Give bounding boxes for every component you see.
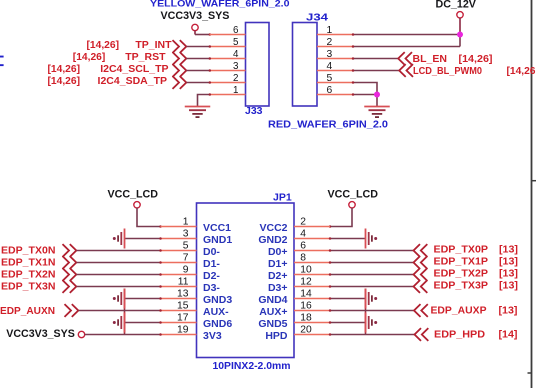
junction JP1 pin 14 xyxy=(329,297,332,300)
svg-text:EDP_HPD: EDP_HPD xyxy=(434,328,485,340)
junction J34 pin 5 wire xyxy=(352,81,355,84)
svg-text:[14,26]: [14,26] xyxy=(459,54,493,65)
junction J34 pin 4 wire xyxy=(352,69,355,72)
ground (GND4) xyxy=(365,289,367,309)
svg-text:JP1: JP1 xyxy=(273,192,292,204)
ground (J33) xyxy=(185,106,211,108)
svg-text:10: 10 xyxy=(300,264,312,275)
JP1 pin 17 xyxy=(161,322,197,324)
svg-text:[14,26]: [14,26] xyxy=(48,76,81,87)
svg-text:2: 2 xyxy=(233,73,238,84)
svg-text:D0-: D0- xyxy=(203,246,220,258)
wire VCC_LCD to JP1 pin 1 xyxy=(137,208,161,227)
svg-text:VCC_LCD: VCC_LCD xyxy=(328,188,379,200)
junction TP_INT at pin xyxy=(209,45,212,48)
J33 pin 1 xyxy=(210,94,246,96)
wire EDP_TX2N xyxy=(77,274,161,276)
junction EDP_TX3N at pin xyxy=(159,285,162,288)
svg-text:TP_INT: TP_INT xyxy=(135,39,172,51)
off-page connector EDP_AUXP xyxy=(414,304,428,317)
junction I2C4_SDA_TP at pin xyxy=(209,81,212,84)
connector J33 xyxy=(246,23,270,107)
svg-text:GND3: GND3 xyxy=(203,294,232,306)
off-page connector TP_RST xyxy=(173,52,187,65)
J34 pin 4 xyxy=(317,70,353,72)
svg-text:7: 7 xyxy=(183,252,189,263)
J34 pin 5 xyxy=(317,82,353,84)
svg-text:GND4: GND4 xyxy=(258,294,287,306)
JP1 pin 1 xyxy=(161,226,197,228)
svg-text:13: 13 xyxy=(177,288,189,299)
connector J34 xyxy=(293,23,318,107)
JP1 pin 9 xyxy=(161,274,197,276)
ground (GND6) xyxy=(124,313,126,333)
JP1 pin 3 xyxy=(161,238,197,240)
ground (GND3) xyxy=(124,289,126,309)
junction JP1 pin 1 xyxy=(159,225,162,228)
svg-text:[14,26: [14,26 xyxy=(507,66,536,77)
wire BL_EN xyxy=(353,58,399,60)
wire EDP_TX0N xyxy=(77,250,161,252)
junction EDP_TX2P at pin xyxy=(329,273,332,276)
svg-text:BL_EN: BL_EN xyxy=(413,53,447,65)
svg-text:16: 16 xyxy=(300,300,312,311)
wire ground bus right (GND4/GND5) xyxy=(365,289,367,335)
off-page connector EDP_TX1N xyxy=(63,256,77,269)
wire J34 pin 5 to ground bus xyxy=(353,83,377,95)
svg-text:[13]: [13] xyxy=(499,305,518,316)
svg-text:3: 3 xyxy=(327,49,333,60)
wire VCC3V3_SYS stem xyxy=(194,30,196,34)
svg-text:2: 2 xyxy=(327,37,333,48)
JP1 pin 13 xyxy=(161,298,197,300)
svg-text:I2C4_SCL_TP: I2C4_SCL_TP xyxy=(100,63,168,75)
svg-text:6: 6 xyxy=(327,85,333,96)
ground (GND5) xyxy=(365,313,367,333)
svg-text:14: 14 xyxy=(300,288,312,299)
svg-text:D0+: D0+ xyxy=(268,246,288,258)
wire EDP_TX1N xyxy=(77,262,161,264)
svg-text:HPD: HPD xyxy=(265,330,288,342)
off-page connector EDP_TX2N xyxy=(63,268,77,281)
svg-text:VCC3V3_SYS: VCC3V3_SYS xyxy=(161,10,230,22)
wire VCC3V3_SYS to J33 pin 6 xyxy=(195,34,210,36)
border tick xyxy=(528,372,532,374)
svg-text:12: 12 xyxy=(300,276,312,287)
wire J33 pin 1 to ground xyxy=(198,95,210,107)
wire EDP_AUXP xyxy=(330,310,414,312)
junction JP1 pin 16 xyxy=(329,309,332,312)
junction J34 pin 1 wire xyxy=(352,33,355,36)
JP1 pin 7 xyxy=(161,262,197,264)
svg-text:9: 9 xyxy=(183,264,189,275)
svg-text:3: 3 xyxy=(183,228,189,239)
svg-text:[13]: [13] xyxy=(499,269,518,280)
svg-text:VCC1: VCC1 xyxy=(203,222,231,234)
off-page connector EDP_AUXN xyxy=(65,304,79,317)
wire EDP_TX0P xyxy=(330,250,414,252)
junction JP1 pin 4 xyxy=(329,237,332,240)
wire VCC3V3_SYS to JP1 pin 19 xyxy=(85,334,161,336)
wire VCC_LCD to JP1 pin 2 xyxy=(330,208,352,227)
ground (J34) xyxy=(364,106,390,108)
svg-text:VCC2: VCC2 xyxy=(259,222,287,234)
J33 pin 3 xyxy=(210,70,246,72)
svg-text:20: 20 xyxy=(300,324,312,335)
svg-text:GND2: GND2 xyxy=(258,234,287,246)
off-page connector EDP_TX3P xyxy=(414,280,428,293)
JP1 pin 20 xyxy=(294,334,330,336)
junction EDP_TX2N at pin xyxy=(159,273,162,276)
J33 pin 2 xyxy=(210,82,246,84)
svg-text:5: 5 xyxy=(183,240,189,251)
junction JP1 pin 19 xyxy=(159,333,162,336)
junction J33 pin 6 xyxy=(209,33,212,36)
svg-text:D1-: D1- xyxy=(203,258,220,270)
svg-text:GND6: GND6 xyxy=(203,318,232,330)
wire EDP_TX1P xyxy=(330,262,414,264)
JP1 pin 19 xyxy=(161,334,197,336)
wire TP_RST xyxy=(187,58,210,60)
connector JP1 xyxy=(197,203,295,358)
J33 pin 4 xyxy=(210,58,246,60)
svg-text:DC_12V: DC_12V xyxy=(436,0,477,11)
svg-text:AUX-: AUX- xyxy=(203,306,229,318)
junction EDP_TX0N at pin xyxy=(159,249,162,252)
wire DC_12V down to pin 2 row xyxy=(459,35,461,47)
schematic page border xyxy=(531,0,533,388)
svg-text:5: 5 xyxy=(233,37,239,48)
svg-text:[13]: [13] xyxy=(499,281,518,292)
svg-text:19: 19 xyxy=(177,324,189,335)
svg-text:GND1: GND1 xyxy=(203,234,232,246)
svg-text:[14]: [14] xyxy=(499,329,518,340)
svg-text:EDP_TX0P: EDP_TX0P xyxy=(434,244,489,256)
svg-text:J33: J33 xyxy=(245,105,263,117)
off-page connector EDP_TX1P xyxy=(414,256,428,269)
wire GND1 xyxy=(125,238,161,240)
off-page connector EDP_TX0N xyxy=(63,244,77,257)
JP1 pin 10 xyxy=(294,274,330,276)
junction EDP_TX1N at pin xyxy=(159,261,162,264)
wire J34 pin 6 to ground xyxy=(353,94,377,96)
svg-text:I2C4_SDA_TP: I2C4_SDA_TP xyxy=(98,75,167,87)
svg-text:6: 6 xyxy=(300,240,306,251)
svg-text:[14,26]: [14,26] xyxy=(48,64,81,75)
wire EDP_TX2P xyxy=(330,274,414,276)
wire LCD_BL_PWM0 xyxy=(353,70,400,72)
svg-text:5: 5 xyxy=(327,73,333,84)
svg-text:11: 11 xyxy=(178,276,189,287)
wire I2C4_SCL_TP xyxy=(187,70,210,72)
svg-text:AUX+: AUX+ xyxy=(259,306,287,318)
svg-text:[13]: [13] xyxy=(499,245,518,256)
junction EDP_TX1P at pin xyxy=(329,261,332,264)
wire GND6 xyxy=(125,322,161,324)
wire GND3 xyxy=(125,298,161,300)
off-page connector I2C4_SDA_TP xyxy=(173,76,187,89)
junction JP1 pin 15 xyxy=(159,309,162,312)
svg-text:TP_RST: TP_RST xyxy=(125,51,166,63)
JP1 pin 14 xyxy=(294,298,330,300)
svg-text:EDP_AUXP: EDP_AUXP xyxy=(431,304,487,316)
JP1 pin 11 xyxy=(161,286,197,288)
power symbol VCC3V3_SYS circle xyxy=(192,24,198,30)
J34 pin 3 xyxy=(317,58,353,60)
svg-text:EDP_TX2P: EDP_TX2P xyxy=(434,268,489,280)
svg-text:RED_WAFER_6PIN_2.0: RED_WAFER_6PIN_2.0 xyxy=(268,120,388,131)
JP1 pin 15 xyxy=(161,310,197,312)
svg-text:3: 3 xyxy=(233,61,239,72)
svg-text:[13]: [13] xyxy=(499,257,518,268)
svg-text:D3+: D3+ xyxy=(268,282,288,294)
JP1 pin 5 xyxy=(161,250,197,252)
border tick upper xyxy=(532,180,536,182)
svg-text:D1+: D1+ xyxy=(268,258,288,270)
off-page connector EDP_HPD xyxy=(415,328,429,341)
svg-text:YELLOW_WAFER_6PIN_2.0: YELLOW_WAFER_6PIN_2.0 xyxy=(150,0,290,10)
off-page connector I2C4_SCL_TP xyxy=(173,64,187,77)
J34 pin 6 xyxy=(317,94,353,96)
svg-text:EDP_TX3P: EDP_TX3P xyxy=(434,280,489,292)
power symbol VCC3V3_SYS circle (bottom) xyxy=(78,331,84,337)
svg-text:VCC_LCD: VCC_LCD xyxy=(108,188,159,200)
svg-text:VCC3V3_SYS: VCC3V3_SYS xyxy=(6,328,75,340)
junction JP1 pin 20 xyxy=(329,333,332,336)
svg-text:6: 6 xyxy=(233,25,239,36)
wire DC_12V to J34 pin 1 xyxy=(353,34,460,36)
cut-off blue text at left edge xyxy=(0,56,4,58)
wire DC_12V stem xyxy=(459,18,461,35)
junction TP_RST at pin xyxy=(209,57,212,60)
junction JP1 pin 13 xyxy=(159,297,162,300)
J33 pin 5 xyxy=(210,46,246,48)
JP1 pin 18 xyxy=(294,322,330,324)
off-page connector EDP_TX3N xyxy=(63,280,77,293)
junction JP1 pin 17 xyxy=(159,321,162,324)
svg-text:EDP_TX1N: EDP_TX1N xyxy=(1,257,56,269)
svg-text:4: 4 xyxy=(327,61,333,72)
svg-text:10PINX2-2.0mm: 10PINX2-2.0mm xyxy=(213,361,291,372)
off-page connector LCD_BL_PWM0 xyxy=(399,64,413,77)
wire GND2 xyxy=(330,238,366,240)
off-page connector EDP_TX0P xyxy=(414,244,428,257)
svg-text:EDP_TX0N: EDP_TX0N xyxy=(1,245,56,257)
junction J34 ground (magenta) xyxy=(374,92,380,98)
off-page connector TP_INT xyxy=(173,40,187,53)
svg-text:4: 4 xyxy=(233,49,239,60)
svg-text:1: 1 xyxy=(327,25,333,36)
svg-text:EDP_TX3N: EDP_TX3N xyxy=(1,281,56,293)
wire EDP_HPD xyxy=(330,334,415,336)
power symbol DC_12V circle xyxy=(457,12,463,18)
JP1 pin 6 xyxy=(294,250,330,252)
svg-text:1: 1 xyxy=(183,216,189,227)
svg-text:15: 15 xyxy=(177,300,189,311)
wire GND4 xyxy=(330,298,366,300)
svg-text:D3-: D3- xyxy=(203,282,220,294)
off-page connector EDP_TX2P xyxy=(414,268,428,281)
svg-text:EDP_TX2N: EDP_TX2N xyxy=(1,269,56,281)
JP1 pin 4 xyxy=(294,238,330,240)
junction JP1 pin 18 xyxy=(329,321,332,324)
svg-text:18: 18 xyxy=(300,312,312,323)
junction J34 pin 3 wire xyxy=(352,57,355,60)
svg-text:17: 17 xyxy=(177,312,189,323)
junction EDP_TX3P at pin xyxy=(329,285,332,288)
JP1 pin 2 xyxy=(294,226,330,228)
wire EDP_TX3N xyxy=(77,286,161,288)
svg-text:EDP_AUXN: EDP_AUXN xyxy=(0,305,55,317)
svg-text:4: 4 xyxy=(300,228,306,239)
JP1 pin 16 xyxy=(294,310,330,312)
wire GND5 xyxy=(330,322,366,324)
svg-text:[14,26]: [14,26] xyxy=(87,40,120,51)
svg-text:[14,26]: [14,26] xyxy=(73,52,106,63)
junction DC_12V (magenta) xyxy=(457,32,463,38)
wire ground stem xyxy=(376,95,378,107)
wire EDP_AUXN xyxy=(79,310,161,312)
junction J34 pin 6 wire xyxy=(352,93,355,96)
J34 pin 2 xyxy=(317,46,353,48)
svg-text:D2+: D2+ xyxy=(268,270,288,282)
wire to J34 pin 2 xyxy=(353,46,460,48)
wire EDP_TX3P xyxy=(330,286,414,288)
junction EDP_TX0P at pin xyxy=(329,249,332,252)
JP1 pin 12 xyxy=(294,286,330,288)
svg-text:8: 8 xyxy=(300,252,306,263)
svg-text:3V3: 3V3 xyxy=(203,330,222,342)
svg-text:EDP_TX1P: EDP_TX1P xyxy=(434,256,489,268)
junction J33 pin 1 xyxy=(209,93,212,96)
svg-text:2: 2 xyxy=(300,216,306,227)
wire ground bus left (GND3/GND6) xyxy=(124,289,126,335)
wire I2C4_SDA_TP xyxy=(187,82,210,84)
svg-text:1: 1 xyxy=(233,85,238,96)
J33 pin 6 xyxy=(210,34,246,36)
power symbol VCC_LCD circle (left) xyxy=(134,202,140,208)
svg-text:LCD_BL_PWM0: LCD_BL_PWM0 xyxy=(413,65,482,77)
junction I2C4_SCL_TP at pin xyxy=(209,69,212,72)
junction JP1 pin 3 xyxy=(159,237,162,240)
svg-text:GND5: GND5 xyxy=(258,318,287,330)
J34 pin 1 xyxy=(317,34,353,36)
ground (GND1) xyxy=(124,229,126,249)
junction J34 pin 2 wire xyxy=(352,45,355,48)
ground (GND2) xyxy=(365,229,367,249)
off-page connector BL_EN xyxy=(398,52,412,65)
svg-text:D2-: D2- xyxy=(203,270,220,282)
wire TP_INT xyxy=(187,46,210,48)
JP1 pin 8 xyxy=(294,262,330,264)
junction JP1 pin 2 xyxy=(329,225,332,228)
power symbol VCC_LCD circle (right) xyxy=(349,202,355,208)
